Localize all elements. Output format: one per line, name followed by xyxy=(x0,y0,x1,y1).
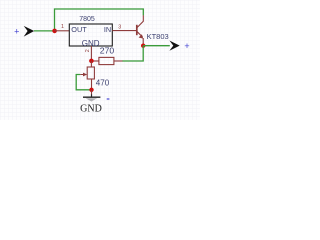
svg-text:IN: IN xyxy=(104,25,111,34)
wire output net xyxy=(143,45,170,47)
port arrow IN xyxy=(24,26,35,37)
wire wiper loop xyxy=(76,75,91,90)
wire pin3 lead to base xyxy=(112,30,136,32)
svg-text:+: + xyxy=(14,27,19,37)
svg-text:3: 3 xyxy=(118,24,121,30)
wire emitter to R1 xyxy=(122,46,143,61)
port arrow OUT xyxy=(169,41,179,51)
wire pin1 lead xyxy=(55,30,70,32)
wire R2 bottom lead xyxy=(91,79,93,90)
svg-text:270: 270 xyxy=(100,45,115,55)
svg-text:GND: GND xyxy=(82,39,100,48)
label minus xyxy=(107,98,110,100)
svg-text:1: 1 xyxy=(61,24,64,30)
ground triangle xyxy=(86,98,98,101)
resistor R2 body xyxy=(87,67,94,79)
svg-text:7805: 7805 xyxy=(79,16,95,23)
wire input net xyxy=(34,30,55,32)
resistor R1 body xyxy=(99,57,114,64)
junction emitter node xyxy=(141,44,145,48)
wire U1 GND pin xyxy=(90,46,92,61)
transistor Q1 emitter arrowhead xyxy=(139,34,144,38)
junction bottom node xyxy=(89,88,93,92)
ground bar xyxy=(83,96,100,98)
wire R1 right lead xyxy=(114,60,123,62)
trimmer wiper arrow xyxy=(80,74,83,76)
wire to gnd symbol xyxy=(91,90,93,95)
transistor Q1 collector xyxy=(137,15,143,27)
svg-text:KT803: KT803 xyxy=(147,32,169,41)
svg-text:+: + xyxy=(184,41,189,51)
svg-text:470: 470 xyxy=(96,78,110,87)
junction gnd node xyxy=(89,59,94,64)
svg-text:GND: GND xyxy=(80,103,102,114)
wire R2 top lead xyxy=(90,61,92,67)
junction input node xyxy=(52,29,57,34)
svg-text:OUT: OUT xyxy=(71,25,87,34)
wire R1 left lead xyxy=(91,60,99,62)
regulator U1 box xyxy=(69,24,112,46)
transistor Q1 base bar xyxy=(136,25,138,35)
wire top rail xyxy=(55,9,144,31)
transistor Q1 emitter xyxy=(137,32,143,44)
svg-text:2: 2 xyxy=(85,49,91,52)
